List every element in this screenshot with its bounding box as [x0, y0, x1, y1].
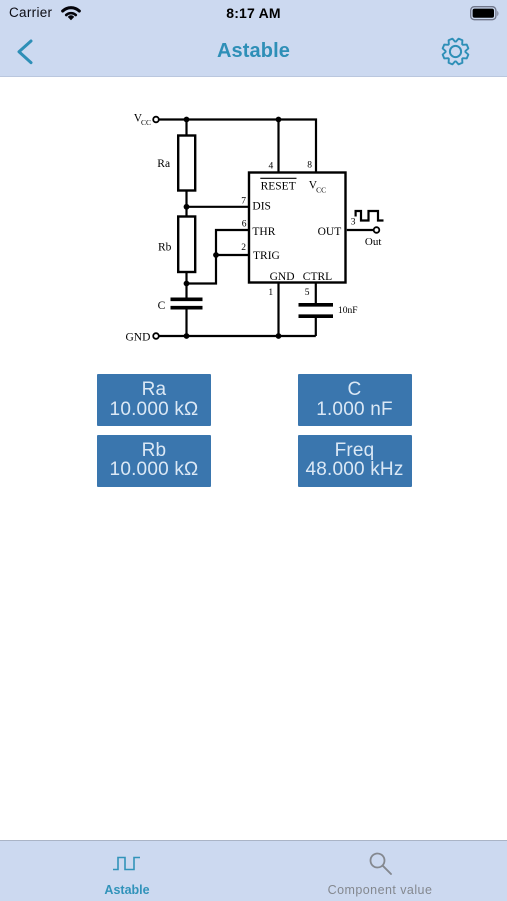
svg-text:RESET: RESET	[261, 181, 296, 193]
svg-text:3: 3	[351, 218, 356, 228]
svg-text:C: C	[158, 300, 166, 312]
svg-text:GND: GND	[126, 331, 151, 343]
svg-text:10nF: 10nF	[338, 306, 358, 316]
svg-text:GND: GND	[270, 271, 295, 283]
svg-text:4: 4	[269, 161, 274, 171]
svg-text:TRIG: TRIG	[253, 250, 280, 262]
svg-text:CTRL: CTRL	[303, 271, 332, 283]
svg-text:DIS: DIS	[252, 201, 271, 213]
svg-text:Out: Out	[365, 236, 382, 248]
svg-text:6: 6	[242, 219, 247, 229]
svg-text:THR: THR	[252, 226, 275, 238]
svg-text:Ra: Ra	[157, 158, 170, 170]
svg-text:7: 7	[241, 196, 246, 206]
svg-text:Rb: Rb	[158, 241, 172, 253]
svg-text:CC: CC	[141, 118, 151, 127]
svg-text:CC: CC	[316, 185, 326, 194]
svg-text:5: 5	[305, 288, 310, 298]
svg-text:OUT: OUT	[318, 226, 342, 238]
svg-text:2: 2	[241, 243, 246, 253]
svg-text:8: 8	[307, 160, 312, 170]
svg-text:1: 1	[268, 288, 273, 298]
